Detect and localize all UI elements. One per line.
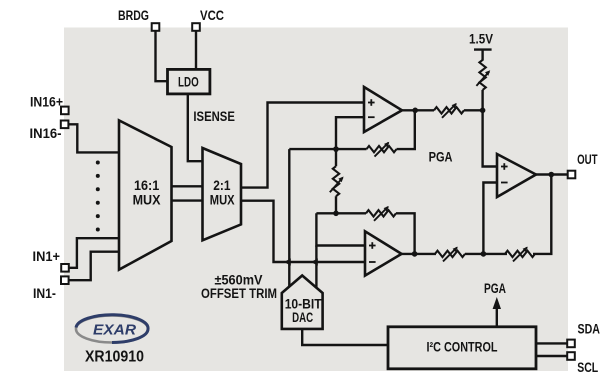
node dot A2 output <box>412 251 418 257</box>
resistor top feedback (variable) <box>367 142 397 157</box>
pin BRDG <box>152 23 160 31</box>
resistor lower feedback (variable) <box>366 206 396 221</box>
wire mux to mux lower <box>172 199 203 201</box>
10-BIT DAC pentagon <box>282 276 323 329</box>
wire RG stubs <box>335 149 337 166</box>
svg-text:LDO: LDO <box>178 74 199 89</box>
pin IN1+ <box>61 264 69 272</box>
op-amp A2 <box>365 231 402 275</box>
I2C CONTROL box <box>388 327 536 369</box>
wire SCL from I2C box <box>536 355 569 357</box>
wire IN1- to 16:1 MUX <box>67 252 119 281</box>
pin SDA <box>567 340 575 348</box>
node dot PGA node <box>480 108 486 114</box>
svg-text:VCC: VCC <box>200 8 224 23</box>
op-amp A1 <box>364 87 402 132</box>
wire A1 output segment <box>402 109 434 111</box>
pin IN16+ <box>61 107 69 115</box>
svg-text:PGA: PGA <box>484 281 506 296</box>
gray panel background <box>64 28 568 372</box>
resistor 1.5V pull-up vertical (variable) <box>476 60 490 90</box>
svg-text:IN1+: IN1+ <box>33 249 61 264</box>
wire ISENSE LDO to 2:1 MUX <box>188 94 203 161</box>
wire top feedback right segment up to A1 output <box>397 110 415 149</box>
wire mux to mux upper <box>172 185 203 187</box>
wire DAC right vertical with branch to A2 + input <box>316 213 365 245</box>
wire A2 output line <box>402 253 437 255</box>
pin IN1- <box>61 276 69 284</box>
svg-text:EXAR: EXAR <box>93 322 136 339</box>
wire IN16 pair to 16:1 MUX <box>67 124 119 152</box>
wire IN1+ to 16:1 MUX <box>67 238 119 268</box>
1.5V supply T bar <box>474 48 492 50</box>
resistor RG vertical (variable) <box>330 166 344 196</box>
svg-text:SDA: SDA <box>578 321 600 336</box>
pin VCC <box>192 23 200 31</box>
pin OUT <box>568 171 576 179</box>
16:1 MUX trapezoid <box>119 120 172 269</box>
svg-text:DAC: DAC <box>292 310 313 325</box>
wire A1 - input to top feedback node <box>336 117 364 149</box>
node dot A1 output <box>412 108 418 114</box>
wire DAC output to I2C control <box>302 329 388 345</box>
wire between resistors <box>465 253 507 255</box>
LDO box <box>168 69 210 94</box>
arrowhead on A2 - line at node with left feedback vertical <box>284 258 291 265</box>
wire 2:1 MUX bottom output to op-amp A2 - input <box>240 201 365 262</box>
svg-text:MUX: MUX <box>133 192 161 207</box>
wire top feedback line left segment <box>289 148 366 150</box>
resistor A1 output to PGA node (variable) <box>434 103 464 118</box>
svg-text:I²C CONTROL: I²C CONTROL <box>427 340 498 355</box>
svg-text:IN16+: IN16+ <box>30 94 63 109</box>
svg-text:2:1: 2:1 <box>213 178 231 193</box>
pin SCL <box>567 352 575 360</box>
wire VCC to LDO <box>195 29 197 69</box>
svg-text:16:1: 16:1 <box>134 178 160 193</box>
node dot top feedback / RG <box>333 146 339 152</box>
svg-text:ISENSE: ISENSE <box>193 109 235 124</box>
svg-text:SCL: SCL <box>577 360 598 375</box>
pin IN16- <box>61 121 69 129</box>
ellipsis dots between inputs <box>96 161 100 232</box>
wire lower feedback line left segment <box>316 212 366 214</box>
svg-text:1.5V: 1.5V <box>469 31 493 46</box>
arrowhead on A2 - line at node with DAC vertical <box>311 258 318 265</box>
svg-text:OUT: OUT <box>577 152 598 167</box>
node dot A3 - node <box>481 251 487 257</box>
wire 1.5V down to resistor <box>481 50 483 61</box>
svg-text:IN1-: IN1- <box>33 286 56 301</box>
node dot RG bottom <box>333 211 339 217</box>
svg-text:XR10910: XR10910 <box>85 348 144 365</box>
wire SDA from I2C box <box>536 342 569 344</box>
2:1 MUX trapezoid <box>203 148 242 240</box>
EXAR logo <box>76 315 148 343</box>
wire lower feedback right segment down to A2 output <box>396 213 415 254</box>
wire BRDG to LDO <box>156 29 168 81</box>
resistor A3 feedback (variable) <box>505 247 535 262</box>
wire A3 output to OUT pin <box>536 173 569 175</box>
svg-text:MUX: MUX <box>210 192 235 207</box>
svg-text:OFFSET TRIM: OFFSET TRIM <box>201 286 277 301</box>
svg-text:BRDG: BRDG <box>118 8 149 23</box>
wire resistor to PGA node and down to A3 + input <box>483 90 497 167</box>
resistor A2 output (variable) <box>435 247 465 262</box>
svg-text:IN16-: IN16- <box>30 126 62 141</box>
wire into PGA node <box>464 109 483 111</box>
wire 2:1 MUX top output to op-amp A1 + input <box>240 103 364 188</box>
wire A3 - input down to feedback line <box>483 183 497 254</box>
node dot A3 output <box>549 172 555 178</box>
svg-text:PGA: PGA <box>429 149 453 164</box>
wire A3 feedback up to output <box>533 175 551 254</box>
op-amp A3 <box>497 154 536 197</box>
wire PGA arrow from I2C box top <box>496 303 498 327</box>
wire left feedback vertical down to DAC <box>288 149 290 288</box>
